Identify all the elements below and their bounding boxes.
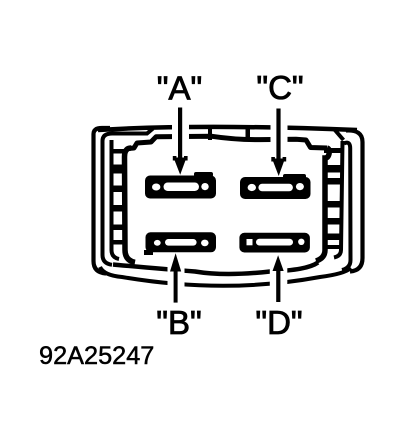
right ladder rungs bbox=[324, 148, 342, 249]
halo B bbox=[168, 255, 185, 305]
connector outer housing left edge bbox=[94, 128, 111, 274]
top lip tick 2 bbox=[246, 126, 251, 140]
left ladder rail bbox=[112, 140, 120, 259]
arrow C bbox=[271, 109, 286, 177]
right ladder rail bbox=[334, 141, 343, 258]
connector outer housing right edge bbox=[346, 130, 363, 271]
arrow A bbox=[173, 108, 188, 175]
pin C body bbox=[240, 174, 311, 199]
outer top right corner branch bbox=[334, 129, 344, 140]
right flange line bbox=[342, 143, 351, 270]
left ladder rungs bbox=[110, 149, 127, 245]
pin D body bbox=[239, 233, 310, 253]
top lip tick 1 bbox=[208, 126, 212, 140]
arrow D bbox=[273, 255, 284, 302]
pin B drip mark bbox=[144, 250, 153, 255]
inner body top edge bbox=[128, 136, 327, 148]
pin B body bbox=[146, 232, 217, 252]
halo D bbox=[270, 257, 288, 305]
connector outer housing top edge bbox=[98, 127, 357, 130]
svg-text:"A": "A" bbox=[157, 69, 202, 106]
svg-text:"B": "B" bbox=[156, 304, 201, 341]
halo C bbox=[271, 106, 288, 173]
inner body right edge bbox=[316, 148, 329, 261]
inner body bottom curve bbox=[113, 263, 318, 275]
pin A body bbox=[145, 172, 216, 199]
outer housing bottom curve bbox=[100, 267, 351, 286]
svg-text:92A25247: 92A25247 bbox=[39, 342, 154, 370]
svg-text:"D": "D" bbox=[255, 304, 302, 341]
svg-text:"C": "C" bbox=[256, 69, 303, 106]
halo A bbox=[172, 106, 189, 172]
arrow B bbox=[170, 253, 181, 302]
left flange line bbox=[103, 129, 154, 265]
inner body left edge bbox=[125, 148, 136, 262]
